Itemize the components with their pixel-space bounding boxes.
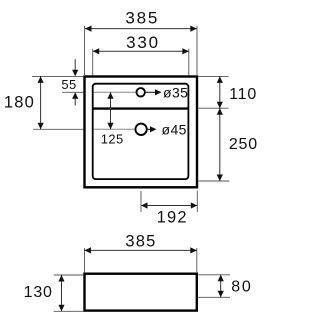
centerline through faucet hole (left ref for 55) [62, 91, 83, 93]
svg-text:192: 192 [157, 208, 188, 226]
svg-text:180: 180 [4, 94, 35, 112]
dim 55: lower arrow [74, 98, 76, 105]
left reference line at square top [32, 75, 83, 77]
dim 250: line and arrows [219, 108, 221, 181]
dim 130: line and arrows [61, 275, 63, 311]
svg-text:330: 330 [126, 33, 160, 52]
svg-text:125: 125 [101, 132, 124, 147]
dim 130: extension lines [54, 274, 84, 276]
dim 110: line and arrows [219, 76, 221, 108]
dim 80: line and arrows [220, 275, 222, 298]
svg-text:ø35: ø35 [163, 84, 188, 100]
top view: outer square of basin [85, 77, 198, 188]
svg-text:385: 385 [125, 9, 159, 28]
dim 125: line and arrows [110, 92, 112, 129]
dim 192: extension lines [140, 191, 142, 212]
leader arrow to label [146, 91, 156, 93]
centerline through drain hole (ext for 180) [33, 128, 83, 130]
dim 192: line and arrows [141, 205, 197, 207]
top view: inner basin rim rounded rect [93, 84, 189, 179]
faucet hole circle [137, 88, 145, 96]
svg-text:ø45: ø45 [162, 121, 187, 137]
drain hole circle [135, 124, 146, 135]
dim 330: extension lines [92, 49, 94, 76]
svg-text:250: 250 [229, 136, 258, 153]
dim 385 top: extension lines [84, 26, 86, 75]
dim 180: line and arrows [40, 76, 42, 129]
dim 385 bottom: line and arrows [85, 249, 197, 251]
dim 385 bottom: extension lines [84, 248, 86, 273]
dim 330: line and arrows [93, 50, 189, 52]
svg-text:55: 55 [61, 77, 76, 92]
leader arrow to label [148, 128, 151, 130]
svg-text:385: 385 [125, 232, 156, 250]
divider line (faucet deck edge) [93, 107, 189, 109]
side view rectangle [85, 274, 197, 311]
dim 55: upper arrow [74, 59, 76, 70]
svg-text:130: 130 [24, 284, 53, 301]
svg-text:110: 110 [229, 86, 257, 103]
dim 385 top: line and arrows [85, 28, 197, 30]
dim 80: extension lines [198, 274, 230, 276]
right extension lines [198, 75, 229, 77]
svg-text:80: 80 [231, 279, 252, 296]
